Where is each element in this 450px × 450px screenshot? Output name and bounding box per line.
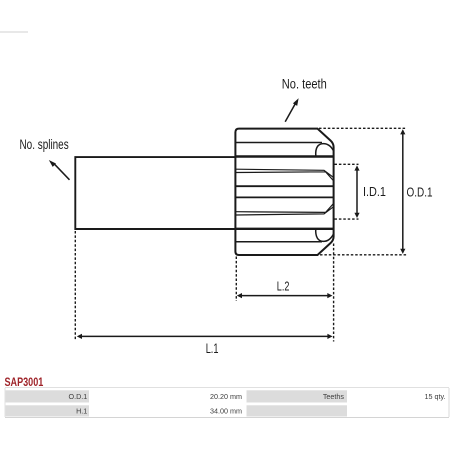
svg-text:No. splines: No. splines	[20, 137, 69, 152]
dimension I.D.1 line	[356, 168, 358, 217]
shaft	[75, 157, 235, 229]
arrow I.D.1 down	[354, 213, 359, 218]
dotted leader O.D. top	[319, 127, 407, 129]
svg-text:20.20 mm: 20.20 mm	[210, 392, 242, 401]
gear mid line 1	[235, 185, 333, 187]
gear thick line upper (shaft top level)	[235, 155, 333, 157]
svg-text:L.1: L.1	[206, 340, 219, 356]
gear mid line 2	[235, 196, 333, 198]
svg-text:O.D.1: O.D.1	[407, 185, 433, 200]
gear outline	[235, 129, 333, 255]
svg-text:Teeths: Teeths	[323, 392, 345, 401]
dotted extension gear right	[333, 244, 335, 342]
svg-text:34.00 mm: 34.00 mm	[210, 407, 242, 416]
svg-text:O.D.1: O.D.1	[69, 392, 88, 401]
svg-text:L.2: L.2	[277, 279, 290, 294]
svg-text:H.1: H.1	[76, 407, 87, 416]
faint artifact line top-left	[0, 31, 28, 33]
leader arrow No. splines	[55, 164, 70, 180]
arrow O.D.1 down	[400, 249, 405, 254]
arrow L.1 right	[327, 334, 332, 339]
svg-text:No. teeth: No. teeth	[282, 76, 327, 91]
gear tooth end arc lower	[316, 228, 334, 241]
table borders	[5, 417, 449, 419]
dotted leader O.D. bottom	[320, 254, 407, 256]
leader arrow No. teeth	[285, 104, 295, 122]
table row 2	[5, 405, 347, 416]
dimension O.D.1 line	[402, 131, 404, 252]
svg-text:15 qty.: 15 qty.	[424, 392, 445, 401]
arrow L.2 left	[237, 293, 242, 298]
svg-text:I.D.1: I.D.1	[363, 185, 386, 199]
dimension L.2 line	[239, 295, 330, 297]
gear tooth line upper	[235, 142, 322, 144]
gear tooth end arc upper	[316, 144, 334, 156]
table row 1	[5, 390, 446, 402]
gear tooth line lower	[235, 241, 322, 243]
arrow O.D.1 up	[400, 129, 405, 134]
dimension L.1 line	[81, 335, 329, 337]
arrow I.D.1 up	[354, 165, 359, 170]
arrow L.2 right	[327, 293, 332, 298]
gear thick line lower (shaft bottom level)	[235, 228, 333, 230]
dotted extension shaft left	[74, 231, 76, 341]
arrow L.1 left	[77, 334, 82, 339]
dotted extension gear left	[235, 257, 237, 302]
spline wedge lower	[236, 204, 334, 215]
dotted leader I.D. top	[335, 163, 359, 165]
table top border	[5, 387, 449, 389]
dotted leader I.D. bottom	[335, 218, 359, 220]
spline wedge upper	[236, 169, 334, 180]
